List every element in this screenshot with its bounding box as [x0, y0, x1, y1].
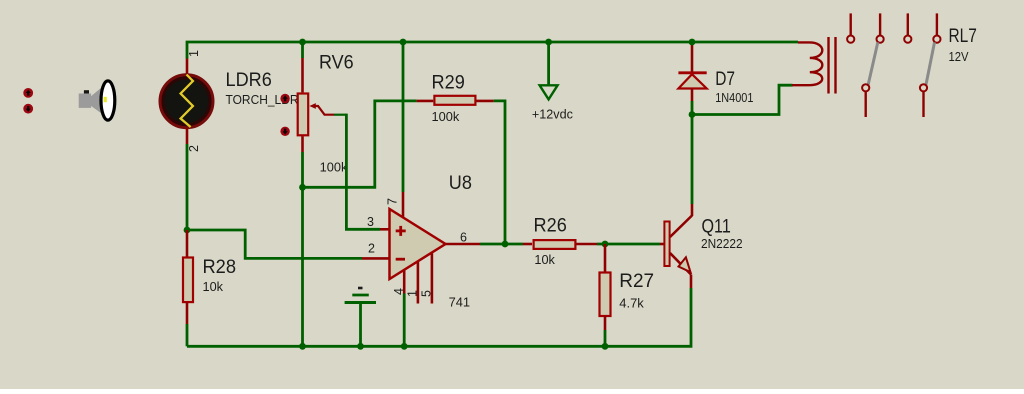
svg-text:Q11: Q11	[702, 217, 731, 238]
node junction base/R27	[602, 241, 609, 248]
svg-text:R29: R29	[432, 73, 465, 94]
node junction pot top on rail	[299, 39, 306, 46]
relay RL7 coil	[792, 42, 822, 85]
LDR actuator button up	[23, 88, 33, 98]
node junction D7 bottom	[689, 111, 696, 118]
wire R29 right red stub	[477, 100, 494, 103]
wire R28 bottom stub	[186, 303, 189, 324]
potentiometer RV6 body	[298, 94, 309, 136]
svg-text:100k: 100k	[320, 160, 348, 175]
svg-text:1N4001: 1N4001	[715, 90, 753, 105]
svg-text:1: 1	[187, 50, 201, 57]
svg-text:RL7: RL7	[949, 26, 977, 47]
svg-text:100k: 100k	[432, 109, 460, 124]
wire LDR bottom pin stub	[186, 129, 189, 145]
svg-text:1: 1	[406, 290, 420, 297]
svg-text:5: 5	[420, 290, 434, 297]
svg-text:6: 6	[460, 231, 467, 245]
transistor Q11 base bar	[664, 222, 669, 267]
svg-text:12V: 12V	[949, 49, 969, 64]
relay switch contact circles bottom	[862, 84, 927, 91]
svg-text:RV6: RV6	[319, 53, 354, 74]
wire node to op-amp pin2	[187, 230, 362, 258]
svg-text:D7: D7	[715, 69, 735, 90]
svg-text:R28: R28	[203, 257, 237, 278]
svg-text:2N2222: 2N2222	[701, 236, 743, 251]
wire pin7 red stub	[402, 192, 405, 218]
torch icon	[79, 81, 115, 120]
diode D7	[678, 73, 706, 101]
svg-text:R27: R27	[619, 271, 654, 292]
wire R27 bottom stub	[604, 316, 607, 330]
node junction pin4 at ground rail	[401, 343, 408, 350]
wire R28 top stub	[186, 230, 189, 257]
wire D7 node to relay coil bottom	[692, 85, 793, 114]
svg-text:7: 7	[386, 198, 400, 205]
power +12vdc terminal	[540, 39, 558, 100]
LDR actuator button down	[23, 104, 33, 114]
wire wiper vertical to pin3	[346, 114, 380, 230]
wire RV6 bottom red stub	[301, 136, 304, 152]
node junction pot at ground rail	[299, 343, 306, 350]
resistor R28	[183, 258, 193, 303]
node junction at R28 top	[184, 227, 191, 234]
wire bottom ground rail	[187, 288, 691, 346]
relay RL7 core lines	[829, 37, 836, 94]
svg-text:2: 2	[368, 242, 375, 256]
wire R29 left red stub	[417, 100, 434, 103]
wire LDR bottom to node	[186, 144, 189, 230]
relay switch contact stubs bottom	[866, 92, 924, 118]
wire R29 right down to output node	[494, 101, 505, 244]
node junction R27 at ground rail	[602, 343, 609, 350]
wire D7 bottom green	[691, 101, 694, 115]
wire LDR top pin stub	[186, 59, 189, 75]
wire top rail with LDR drop	[187, 42, 798, 59]
resistor R26	[534, 240, 576, 249]
svg-text:4.7k: 4.7k	[619, 296, 644, 311]
svg-text:2: 2	[187, 145, 201, 152]
wire RV6 top red stub	[301, 58, 304, 92]
wire pot bottom to R29 left	[303, 101, 417, 187]
wire output green to node	[480, 243, 523, 246]
relay switch blade 2	[926, 42, 935, 84]
node junction ground at rail	[357, 343, 364, 350]
node junction output	[502, 241, 509, 248]
ground symbol	[345, 288, 376, 346]
node junction pin7 on rail	[400, 39, 407, 46]
potentiometer RV6 wiper arrow	[309, 103, 346, 115]
relay switch contact stubs top	[851, 13, 937, 35]
wire R28 to ground rail	[186, 324, 189, 346]
svg-text:10k: 10k	[534, 252, 555, 267]
wire pin3 red stub	[380, 228, 390, 231]
diode D7 top stub	[691, 42, 694, 72]
op-amp U8 pin5 wire	[431, 253, 434, 303]
node junction D7 on rail	[689, 39, 696, 46]
wire R26 right red stub	[577, 243, 598, 246]
LDR6 photoresistor body	[160, 75, 213, 128]
op-amp U8 pin4 wire	[403, 271, 406, 294]
wire base red stub	[660, 243, 664, 246]
RV6 actuator button down	[280, 127, 289, 136]
relay switch blade 1	[868, 42, 878, 84]
svg-text:LDR6: LDR6	[226, 70, 272, 91]
svg-text:3: 3	[367, 215, 374, 229]
wire R27 top stub	[604, 244, 607, 273]
relay switch contact circles top	[847, 36, 940, 43]
transistor Q11 collector wire	[670, 115, 692, 238]
wire pot branch from top rail	[301, 42, 304, 58]
svg-text:4: 4	[392, 288, 406, 295]
RV6 actuator button up	[280, 94, 289, 103]
wire R26 left red stub	[523, 243, 532, 246]
svg-text:10k: 10k	[203, 279, 224, 294]
resistor R29	[434, 96, 475, 105]
svg-text:+12vdc: +12vdc	[532, 107, 573, 122]
op-amp plus symbol	[396, 226, 406, 236]
wire pin2 red stub	[362, 257, 390, 260]
resistor R27	[600, 273, 611, 317]
op-amp U8 triangle	[390, 209, 446, 279]
wire op-amp pin7 branch	[402, 42, 405, 192]
svg-text:U8: U8	[449, 173, 472, 194]
transistor Q11 emitter wire	[670, 253, 691, 288]
wire R27 to ground rail	[604, 330, 607, 346]
op-amp minus symbol	[396, 258, 405, 261]
svg-text:741: 741	[449, 295, 471, 310]
svg-text:R26: R26	[534, 216, 567, 237]
wire RV6 bottom to ground rail	[301, 152, 304, 346]
wire node to Q11 base	[597, 243, 660, 246]
wire op-amp output red stub	[446, 243, 481, 246]
op-amp U8 pin1 wire	[417, 262, 420, 304]
node junction pot bottom	[299, 184, 306, 191]
